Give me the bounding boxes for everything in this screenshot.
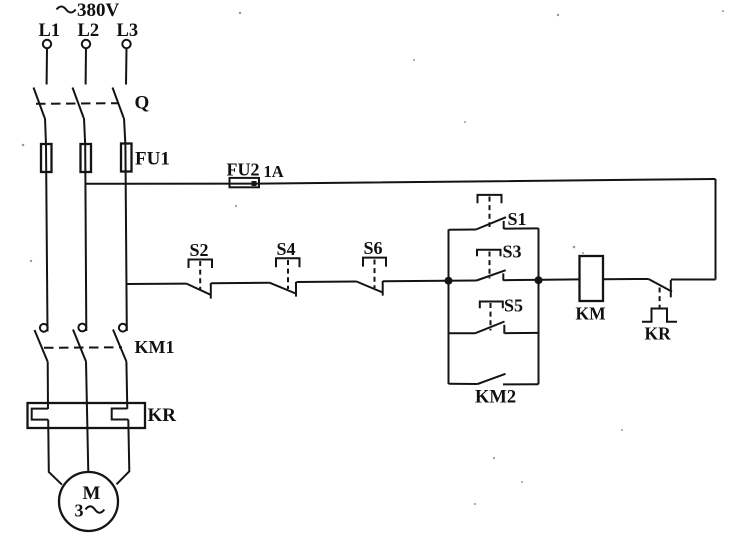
button S5 dashed plunger <box>490 303 492 331</box>
button S4 NC blade <box>270 283 296 294</box>
left parallel rail <box>448 230 450 385</box>
relay KR enclosure box <box>28 403 146 428</box>
wire right rail vertical <box>715 179 717 280</box>
button S5 branch wire left <box>449 332 476 334</box>
button S2 bracket actuator <box>189 260 213 269</box>
coil KM <box>580 256 604 301</box>
node B junction dot <box>535 276 543 284</box>
button S3 dashed plunger <box>489 252 491 279</box>
fuse FU2 end cap mark <box>252 181 257 186</box>
wire L2 to switch Q <box>85 48 87 84</box>
svg-text:KR: KR <box>148 405 177 426</box>
contact KM1 linkage dashed line <box>44 346 122 349</box>
fuse FU1 pole 3 <box>121 144 132 172</box>
wire Q to fuse FU1 pole 2 <box>84 118 85 145</box>
button S3 NO blade on main line <box>477 270 506 280</box>
button S6 NC blade <box>357 282 383 293</box>
wire heater 3 to motor <box>117 420 130 485</box>
contact KR dashed link <box>659 288 661 309</box>
svg-text:L2: L2 <box>78 21 100 41</box>
switch Q linkage dashed line <box>36 102 119 105</box>
button S3 contact tick <box>502 273 504 280</box>
terminal circle L3 <box>122 40 130 48</box>
wire KM1 pole3 to relay KR heater <box>125 362 128 409</box>
wire KM1 pole2 straight through relay KR to motor <box>86 362 88 473</box>
svg-text:Q: Q <box>135 93 150 114</box>
label ~380V supply <box>57 0 120 21</box>
svg-text:L3: L3 <box>117 21 139 41</box>
right parallel rail <box>538 228 540 384</box>
contact KM2 branch wire right <box>503 383 539 385</box>
button S6 bracket actuator <box>363 258 386 267</box>
contact KM2 branch wire left <box>449 383 478 385</box>
button S5 contact tick <box>503 325 505 334</box>
node A junction dot <box>445 277 453 285</box>
switch Q blade pole 3 <box>113 88 124 119</box>
switch Q blade pole 1 <box>34 88 45 119</box>
svg-text:KM2: KM2 <box>475 388 516 408</box>
svg-text:S6: S6 <box>364 238 383 258</box>
fuse FU1 pole 1 <box>41 144 52 172</box>
contact KR tick <box>670 280 672 298</box>
wire through fuse 1 down to contact KM1 pole 1 <box>46 145 48 332</box>
wire L3 to switch Q <box>125 48 128 84</box>
terminal circle L2 <box>82 40 90 48</box>
button S3 bracket actuator <box>477 250 501 256</box>
wire through fuse 2 down to contact KM1 pole 2 <box>85 145 86 331</box>
motor tilde wave <box>86 506 105 513</box>
contact KM1 fixed circle pole 2 <box>78 324 86 332</box>
button S1 contact tick <box>503 221 505 229</box>
wire Q to fuse FU1 pole 1 <box>45 118 46 145</box>
contact KM1 blade pole 3 <box>113 330 126 362</box>
relay KR bump symbol <box>642 309 677 322</box>
wire coil KM to contact KR <box>603 278 649 280</box>
wire KM1 pole1 to relay KR heater <box>47 362 49 409</box>
svg-text:KR: KR <box>645 324 672 344</box>
wire top control line from L2 through FU2 to right rail <box>86 179 716 184</box>
contact KR NC blade <box>649 279 673 292</box>
fuse FU2 <box>230 178 260 187</box>
wire S6 to node A <box>383 280 477 283</box>
svg-text:FU1: FU1 <box>135 149 170 170</box>
wire node B to coil KM <box>503 278 579 281</box>
svg-text:M: M <box>83 483 101 504</box>
svg-text:S2: S2 <box>190 240 209 260</box>
svg-text:S1: S1 <box>508 209 527 229</box>
button S5 NO blade <box>475 322 505 334</box>
wire Q to fuse FU1 pole 3 <box>124 118 125 145</box>
contact KM1 blade pole 1 <box>35 330 48 362</box>
button S5 branch wire right <box>505 332 539 334</box>
button S4 dashed plunger <box>287 260 289 289</box>
svg-text:L1: L1 <box>39 21 61 41</box>
button S1 dashed plunger <box>489 197 491 228</box>
switch Q blade pole 2 <box>73 88 84 119</box>
button S2 NC blade <box>187 284 211 295</box>
svg-text:1A: 1A <box>264 162 284 181</box>
button S5 bracket actuator <box>480 302 503 309</box>
fuse FU1 pole 2 <box>81 144 92 172</box>
button S1 branch wire left <box>449 229 477 231</box>
wire control line from L3 to button S2 <box>126 283 186 285</box>
button S2 dashed plunger <box>199 261 201 290</box>
svg-text:S3: S3 <box>503 242 522 262</box>
wire S4 to S6 <box>297 281 357 284</box>
svg-text:S5: S5 <box>504 296 523 316</box>
svg-text:FU2: FU2 <box>227 160 260 180</box>
relay KR heater element pole 3 <box>112 409 129 420</box>
button S4 bracket actuator <box>276 258 300 267</box>
button S1 bracket actuator <box>478 195 502 203</box>
svg-text:KM1: KM1 <box>135 337 175 357</box>
button S6 contact tick <box>382 281 384 296</box>
svg-text:KM: KM <box>576 304 607 324</box>
svg-text:S4: S4 <box>277 239 296 259</box>
terminal circle L1 <box>43 40 51 48</box>
motor M circle <box>59 472 118 531</box>
button S4 contact tick <box>295 282 297 297</box>
contact KM1 blade pole 2 <box>73 330 86 362</box>
wire contact KR to right rail <box>671 279 716 281</box>
svg-text:380V: 380V <box>77 0 120 21</box>
svg-text:3: 3 <box>75 501 84 521</box>
button S2 contact tick <box>210 283 212 299</box>
button S6 dashed plunger <box>374 260 376 289</box>
wire heater 1 to motor <box>48 420 62 485</box>
wire through fuse 3 down to contact KM1 pole 3 <box>125 145 126 332</box>
contact KM1 fixed circle pole 3 <box>119 324 127 332</box>
contact KM1 fixed circle pole 1 <box>40 324 48 332</box>
wire L1 to switch Q <box>46 48 48 84</box>
wire S2 to S4 <box>211 282 270 285</box>
contact KM2 NO blade <box>478 374 506 384</box>
relay KR heater element pole 1 <box>32 409 49 420</box>
button S1 branch wire right <box>504 227 539 229</box>
button S1 NO blade <box>476 217 506 229</box>
